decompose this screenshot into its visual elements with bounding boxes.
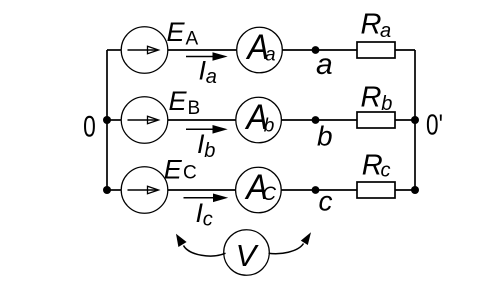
wire row1 ammeter to resistor bbox=[282, 49, 357, 51]
svg-text:C: C bbox=[183, 162, 197, 183]
svg-text:B: B bbox=[188, 98, 201, 119]
svg-text:E: E bbox=[164, 154, 183, 184]
current arrow Ib bbox=[186, 128, 214, 130]
source EA circle bbox=[121, 27, 168, 74]
svg-text:E: E bbox=[169, 86, 188, 116]
svg-text:a: a bbox=[380, 20, 391, 42]
svg-text:b: b bbox=[264, 115, 275, 136]
source EB internal arrow bbox=[128, 119, 158, 121]
resistor Rb bbox=[357, 112, 395, 128]
source EC circle bbox=[121, 167, 168, 214]
node dot right bottom bbox=[411, 186, 419, 194]
wire row2 resistor to right bus bbox=[395, 119, 415, 121]
node a bbox=[312, 46, 320, 54]
wire row3 source to ammeter bbox=[168, 189, 236, 191]
current arrow Ia bbox=[186, 56, 214, 58]
svg-text:a: a bbox=[265, 45, 276, 66]
node 0 junction dot bbox=[103, 116, 111, 124]
svg-text:b: b bbox=[317, 121, 333, 152]
svg-text:a: a bbox=[316, 48, 333, 81]
wire row2 source to ammeter bbox=[168, 119, 236, 121]
wire row3 bus to source bbox=[107, 189, 122, 191]
current arrow Ic bbox=[184, 197, 215, 199]
svg-text:0: 0 bbox=[83, 109, 96, 143]
svg-text:C: C bbox=[262, 184, 276, 205]
resistor Ra bbox=[357, 42, 395, 58]
voltmeter V bbox=[224, 230, 270, 276]
source EB circle bbox=[121, 97, 168, 144]
node 0' junction dot bbox=[411, 116, 419, 124]
wire row3 resistor to right bus bbox=[395, 189, 415, 191]
svg-text:a: a bbox=[206, 66, 217, 88]
wire row2 ammeter to resistor bbox=[281, 119, 357, 121]
wire row1 resistor to right bus bbox=[395, 49, 415, 51]
ammeter AC circle bbox=[236, 167, 282, 213]
wire row1 bus to source bbox=[107, 49, 122, 51]
svg-text:c: c bbox=[381, 159, 391, 181]
svg-text:c: c bbox=[203, 208, 213, 230]
svg-text:c: c bbox=[319, 186, 333, 217]
wire row3 ammeter to resistor bbox=[281, 189, 357, 191]
source EC internal arrow bbox=[128, 189, 158, 191]
wire row2 bus to source bbox=[107, 119, 122, 121]
node c bbox=[312, 186, 320, 194]
svg-text:b: b bbox=[204, 140, 215, 162]
svg-text:V: V bbox=[236, 238, 260, 273]
resistor Rc bbox=[357, 182, 395, 198]
source EA internal arrow bbox=[128, 49, 158, 51]
svg-text:R: R bbox=[361, 82, 382, 114]
node dot left bottom bbox=[103, 186, 111, 194]
svg-text:R: R bbox=[361, 8, 382, 40]
svg-text:A: A bbox=[186, 29, 199, 50]
ammeter Ab circle bbox=[236, 97, 282, 143]
svg-text:0': 0' bbox=[426, 108, 443, 141]
svg-text:E: E bbox=[167, 17, 186, 47]
ammeter Aa circle bbox=[237, 27, 283, 73]
voltmeter left lead arc bbox=[184, 246, 226, 257]
voltmeter right lead arc bbox=[269, 244, 304, 254]
wire right bus 0' bbox=[414, 50, 416, 190]
svg-text:b: b bbox=[381, 93, 392, 115]
wire left bus 0 bbox=[106, 50, 108, 190]
wire row1 source to ammeter bbox=[168, 49, 237, 51]
node b bbox=[312, 116, 320, 124]
